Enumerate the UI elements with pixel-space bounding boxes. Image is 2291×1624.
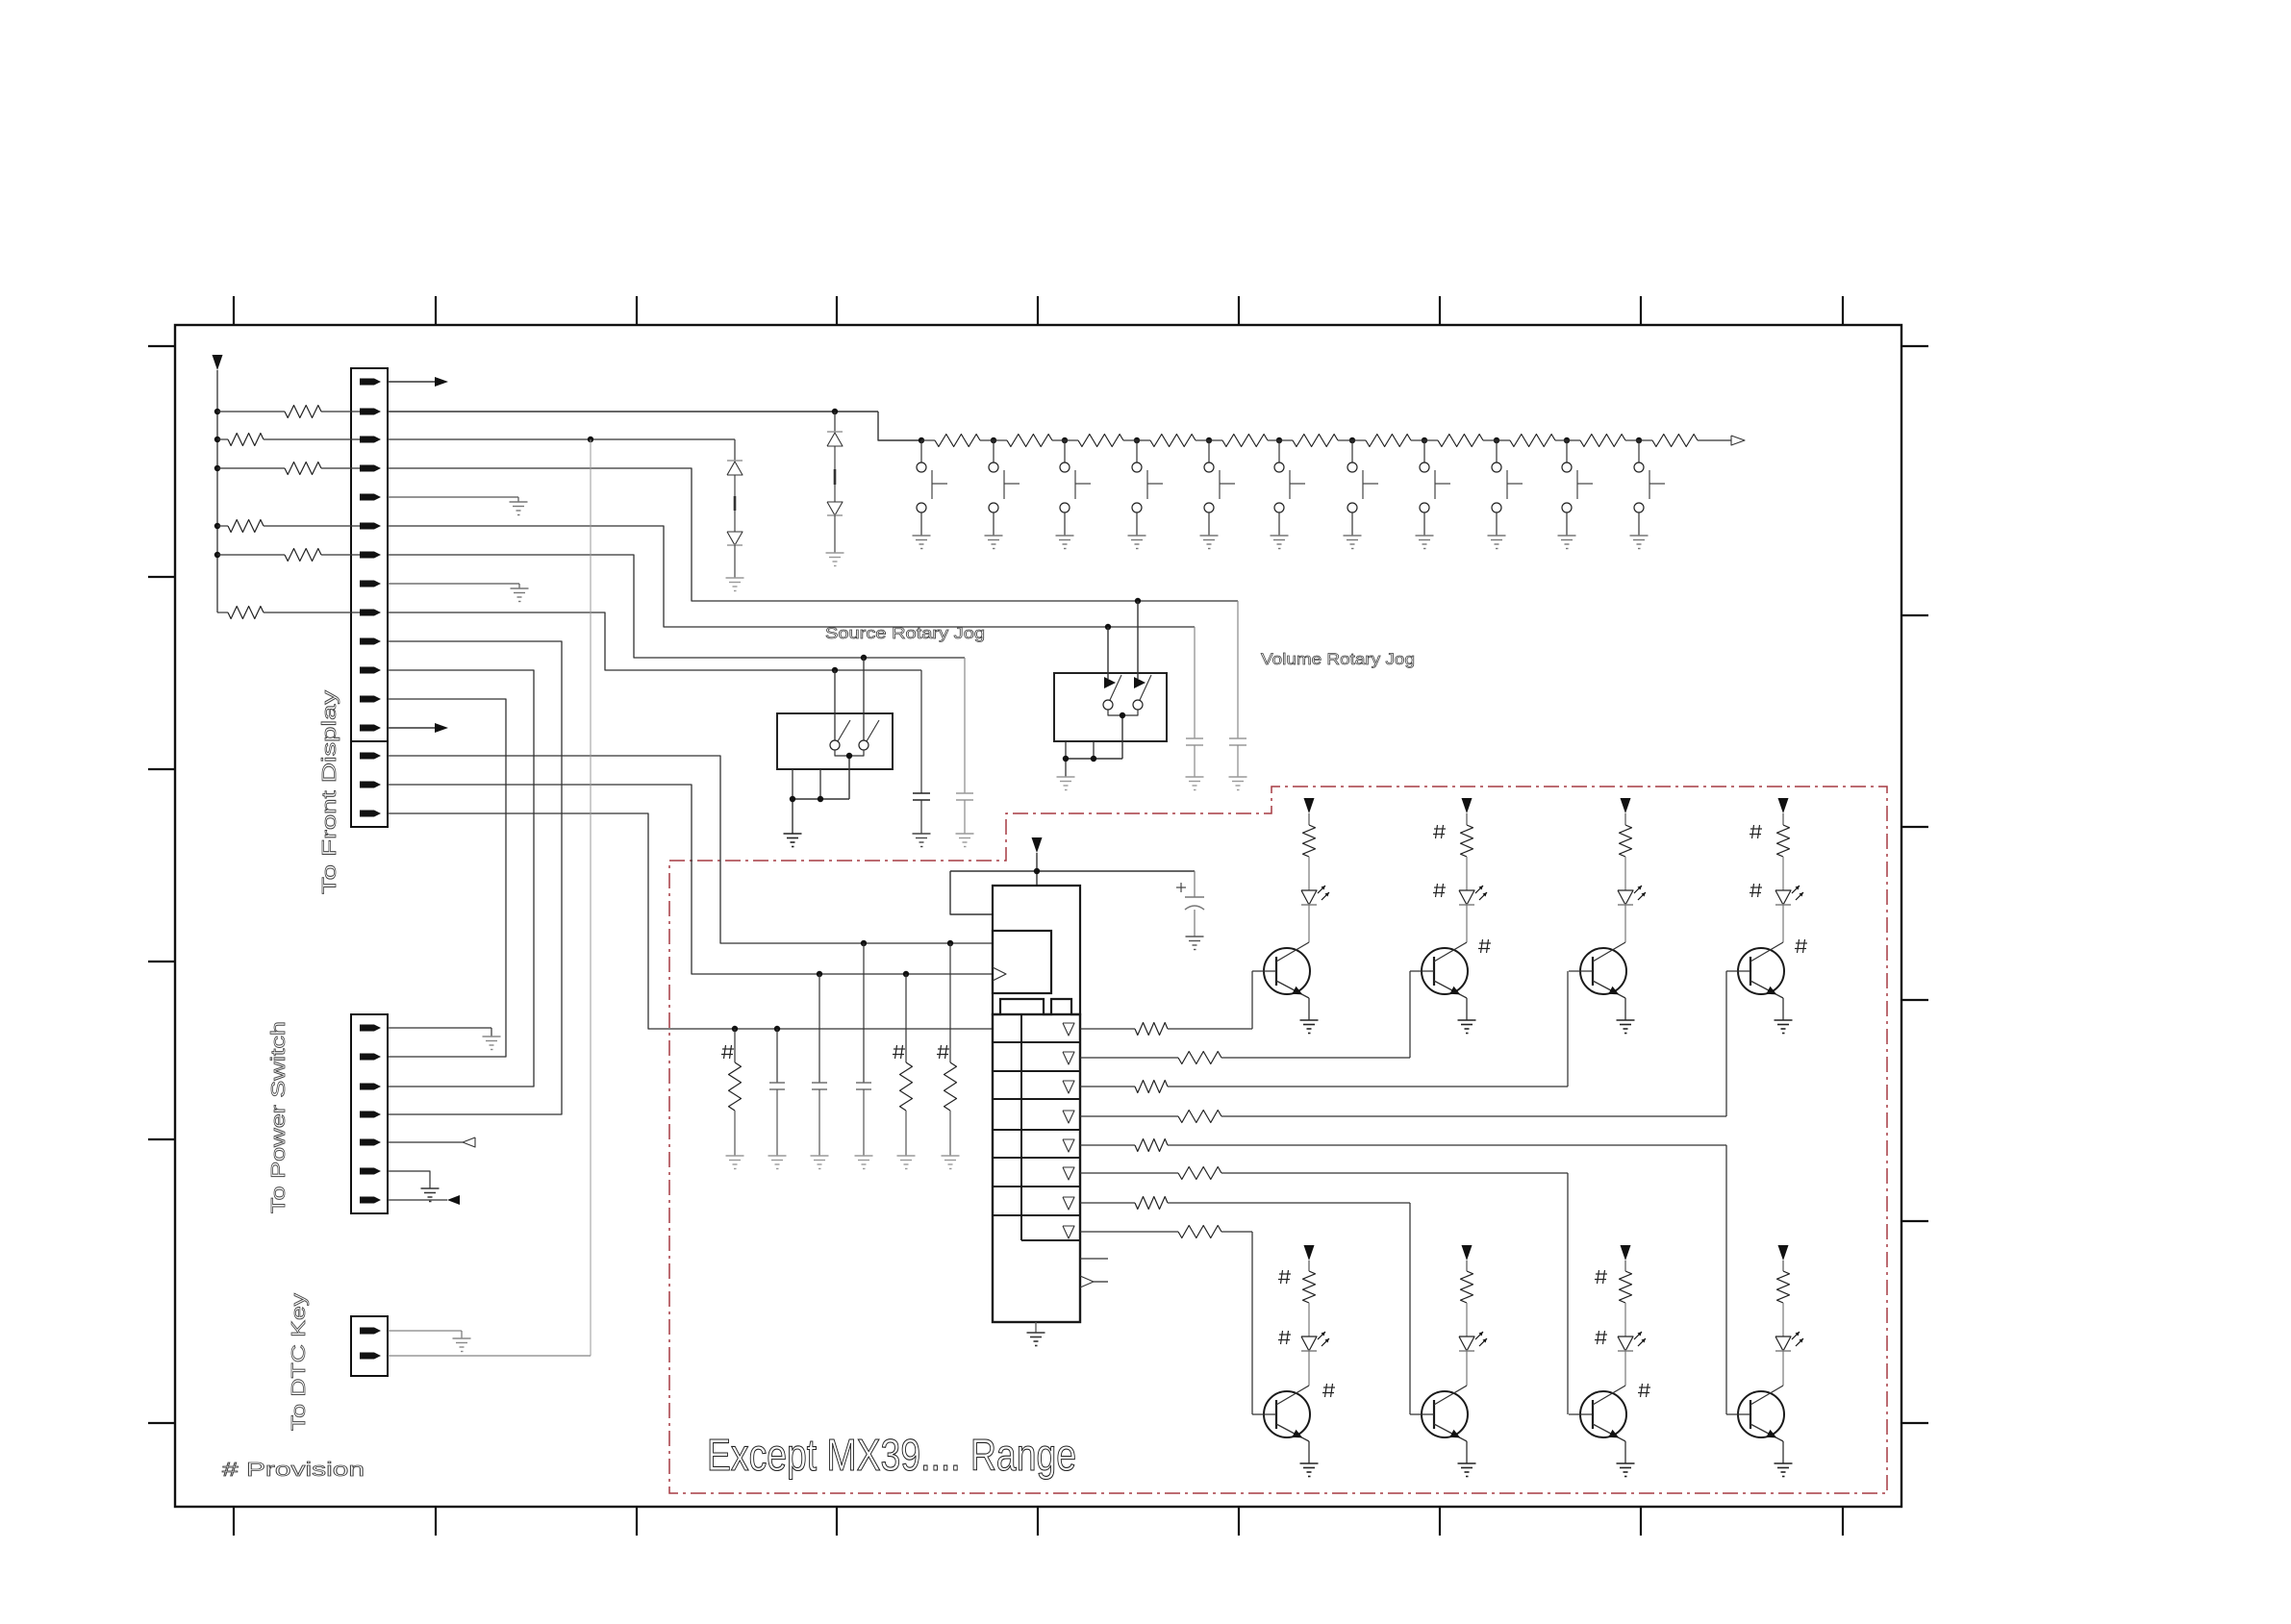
connector To DTC Key bbox=[351, 1316, 388, 1376]
provision hash mark bbox=[1638, 1384, 1650, 1397]
LED D2 bbox=[1459, 886, 1487, 942]
junction bbox=[861, 655, 867, 661]
wire into source switch 1 bbox=[834, 670, 836, 740]
wire row 1 to transistor base bbox=[1251, 971, 1253, 1029]
provision hash mark bbox=[1433, 884, 1446, 897]
connector pin bbox=[360, 465, 381, 472]
resistor bank R (provision) bbox=[729, 1029, 742, 1156]
capacitor C+ electrolytic bbox=[1176, 871, 1204, 937]
resistor LED column 2 bbox=[1461, 825, 1473, 890]
svg-text:Source Rotary Jog: Source Rotary Jog bbox=[825, 624, 985, 642]
ground bbox=[421, 1187, 440, 1189]
provision hash mark bbox=[1278, 1270, 1291, 1284]
connector pin bbox=[360, 1112, 381, 1118]
capacitor C source jog 2 bbox=[956, 658, 973, 834]
connector pin bbox=[360, 1168, 381, 1175]
connector pin bbox=[360, 811, 381, 817]
ground bbox=[1558, 535, 1576, 537]
ground bbox=[1229, 776, 1247, 778]
wire pin2 to key ladder bbox=[388, 411, 878, 412]
connector pin bbox=[360, 494, 381, 501]
svg-text:To DTC Key: To DTC Key bbox=[289, 1293, 310, 1431]
LED D4 bbox=[1775, 886, 1803, 942]
push-button key S2 bbox=[989, 440, 1020, 536]
junction bbox=[1034, 868, 1040, 874]
resistor row4 bbox=[217, 467, 285, 469]
wire pin7 to source jog bbox=[388, 555, 965, 658]
connector pin bbox=[360, 1084, 381, 1090]
IC clock input triangle bbox=[993, 967, 1006, 981]
resistor row2 bbox=[217, 411, 285, 412]
connector pin bbox=[360, 1197, 381, 1204]
transistor Q1 bbox=[1252, 942, 1319, 1034]
junction bbox=[846, 753, 852, 759]
resistor ladder R4 bbox=[1137, 439, 1150, 441]
resistor ladder R6 bbox=[1279, 439, 1293, 441]
resistor bank R2 (provision) bbox=[900, 974, 913, 1156]
provision hash mark bbox=[1433, 825, 1446, 838]
wire pin4 to volume jog bbox=[388, 468, 1238, 601]
resistor ladder R2 bbox=[994, 439, 1007, 441]
IC U1 LED driver output stack bbox=[993, 1014, 1080, 1322]
ground bbox=[1056, 535, 1074, 537]
connector pin bbox=[360, 782, 381, 788]
connector pin bbox=[360, 753, 381, 760]
push-button key S6 bbox=[1274, 440, 1305, 536]
junction bbox=[588, 437, 593, 442]
LED D1 bbox=[1301, 886, 1329, 942]
resistor IC output row 4 bbox=[1080, 1115, 1178, 1117]
power arrow LED column 1 bbox=[1304, 798, 1315, 825]
provision hash mark bbox=[1595, 1331, 1607, 1344]
ground bbox=[1057, 776, 1075, 778]
junction bbox=[1120, 712, 1125, 718]
junction bbox=[832, 409, 838, 414]
connector pin bbox=[360, 638, 381, 645]
connector pin bbox=[360, 1353, 381, 1360]
resistor LED column 3 bbox=[1620, 825, 1632, 890]
connector pin bbox=[360, 581, 381, 587]
resistor ladder R7 bbox=[1352, 439, 1366, 441]
junction on rail bbox=[214, 523, 220, 529]
connector pin bbox=[360, 1054, 381, 1061]
wire power pin6 to ground bbox=[388, 1171, 430, 1188]
junction key ladder tap 3 bbox=[1062, 437, 1068, 443]
push-button key S1 bbox=[917, 440, 947, 536]
provision hash mark bbox=[1322, 1384, 1335, 1397]
drawing frame border with ruler ticks bbox=[148, 296, 1928, 1536]
connector pin bbox=[360, 409, 381, 415]
junction bbox=[832, 667, 838, 673]
wire pin12 to power switch pin2 bbox=[388, 699, 506, 1057]
wire power pin5 open arrow bbox=[388, 1141, 463, 1143]
resistor row3 bbox=[217, 438, 228, 440]
capacitor C volume jog 1 bbox=[1186, 627, 1203, 777]
resistor ladder R5 bbox=[1209, 439, 1222, 441]
wire into volume switch 2 bbox=[1137, 601, 1139, 679]
wire pin5 to ground bbox=[388, 496, 518, 498]
resistor IC output row 8 bbox=[1080, 1231, 1178, 1233]
junction key ladder tap 4 bbox=[1134, 437, 1140, 443]
ground bbox=[510, 501, 528, 503]
ground bbox=[913, 833, 931, 835]
push-button key S7 bbox=[1347, 440, 1378, 536]
svg-text:To Power Switch: To Power Switch bbox=[268, 1021, 290, 1213]
capacitor bank C2 bbox=[812, 974, 827, 1156]
connector pin bbox=[360, 667, 381, 674]
wire pin16 to RC bank bbox=[388, 813, 993, 1029]
provision hash mark bbox=[1795, 939, 1807, 953]
resistor ladder R10 bbox=[1567, 439, 1580, 441]
junction on rail bbox=[214, 409, 220, 414]
svg-text:Volume Rotary Jog: Volume Rotary Jog bbox=[1261, 650, 1415, 668]
ground bbox=[1128, 535, 1146, 537]
connector pin bbox=[360, 725, 381, 732]
ground bbox=[726, 577, 744, 579]
diode pair D2 (to ground) bbox=[827, 412, 843, 553]
IC U1 inner block bbox=[993, 931, 1051, 993]
ground bbox=[726, 1155, 744, 1157]
wire supply elbow to IC bbox=[950, 871, 993, 914]
wire pin6 to volume jog bbox=[388, 526, 1195, 627]
wire row 4 to transistor base bbox=[1725, 971, 1727, 1116]
ground bbox=[1186, 776, 1204, 778]
wire power pin1 to ground bbox=[388, 1027, 491, 1029]
resistor IC output row 3 bbox=[1080, 1086, 1135, 1087]
wire pin11 to power switch pin3 bbox=[388, 670, 534, 1087]
connector pin bbox=[360, 552, 381, 559]
driver output triangle bbox=[1063, 1226, 1074, 1238]
wire into source switch 2 bbox=[863, 658, 865, 740]
IC U1 driver top block bbox=[993, 886, 1080, 1014]
switch contacts source jog bbox=[830, 720, 879, 799]
ground bbox=[985, 535, 1003, 537]
LED D7 bbox=[1618, 1332, 1646, 1386]
wire pin13 output arrow bbox=[388, 727, 435, 729]
junction bbox=[818, 796, 823, 802]
ground bbox=[1027, 1332, 1045, 1334]
provision hash mark bbox=[1750, 825, 1762, 838]
provision hash mark bbox=[1278, 1331, 1291, 1344]
resistor row7 bbox=[217, 554, 285, 556]
connector To Front Display lower section bbox=[351, 741, 388, 827]
driver output triangle bbox=[1063, 1111, 1074, 1123]
junction on rail bbox=[214, 465, 220, 471]
ground bbox=[1271, 535, 1289, 537]
resistor LED column 5 bbox=[1303, 1271, 1316, 1337]
provision hash mark bbox=[1595, 1270, 1607, 1284]
capacitor bank C1 bbox=[769, 1029, 785, 1156]
diode pair D1 (to ground) bbox=[727, 439, 743, 578]
IC stub output bbox=[1080, 1258, 1108, 1260]
wire pin15 to IC clock input bbox=[388, 785, 993, 974]
ground bbox=[942, 1155, 960, 1157]
wire power pin7 arrow bbox=[388, 1199, 447, 1201]
connector pin bbox=[360, 610, 381, 616]
power arrow LED column 5 bbox=[1304, 1245, 1315, 1271]
transistor Q2 bbox=[1410, 942, 1476, 1034]
resistor IC output row 6 bbox=[1080, 1172, 1178, 1174]
ground bbox=[826, 552, 844, 554]
junction key ladder tap 1 bbox=[919, 437, 924, 443]
push-button key S3 bbox=[1060, 440, 1091, 536]
svg-text:# Provision: # Provision bbox=[222, 1460, 365, 1481]
switch box Source Rotary Jog bbox=[777, 713, 893, 769]
ground bbox=[483, 1036, 501, 1037]
wire IC supply rail bbox=[950, 870, 1195, 872]
driver output triangle bbox=[1063, 1139, 1074, 1152]
junction key ladder tap 6 bbox=[1276, 437, 1282, 443]
resistor LED column 1 bbox=[1303, 825, 1316, 890]
transistor Q5 bbox=[1252, 1386, 1319, 1477]
resistor IC output row 2 bbox=[1080, 1057, 1178, 1059]
LED D5 bbox=[1301, 1332, 1329, 1386]
power arrow IC supply bbox=[1032, 837, 1043, 886]
resistor LED column 8 bbox=[1777, 1271, 1790, 1337]
wire DTC pin1 to ground bbox=[388, 1330, 462, 1332]
ground bbox=[1488, 535, 1506, 537]
connector pin bbox=[360, 437, 381, 443]
ground bbox=[511, 587, 529, 589]
junction bbox=[1105, 624, 1111, 630]
LED D8 bbox=[1775, 1332, 1803, 1386]
junction key ladder tap 9 bbox=[1494, 437, 1499, 443]
junction key ladder tap 8 bbox=[1422, 437, 1427, 443]
resistor row9 bbox=[217, 612, 228, 613]
driver output triangle bbox=[1063, 1081, 1074, 1093]
red dash-dot provision boundary box bbox=[669, 787, 1887, 1493]
svg-text:To Front Display: To Front Display bbox=[319, 690, 340, 894]
push-button key S11 bbox=[1634, 440, 1665, 536]
ground bbox=[913, 535, 931, 537]
capacitor bank C3 bbox=[856, 943, 871, 1156]
junction on rail bbox=[214, 552, 220, 558]
ground bbox=[811, 1155, 829, 1157]
power arrow on key-matrix supply rail bbox=[213, 355, 223, 612]
switch contacts volume jog bbox=[1103, 675, 1151, 759]
capacitor C source jog 1 bbox=[913, 670, 930, 834]
push-button key S8 bbox=[1420, 440, 1450, 536]
junction key ladder tap 11 bbox=[1636, 437, 1642, 443]
push-button key S9 bbox=[1492, 440, 1523, 536]
resistor LED column 7 bbox=[1620, 1271, 1632, 1337]
connector pin bbox=[360, 696, 381, 703]
junction key ladder tap 2 bbox=[991, 437, 996, 443]
capacitor C volume jog 2 bbox=[1229, 601, 1246, 777]
ground bbox=[1344, 535, 1362, 537]
junction bbox=[1091, 756, 1096, 762]
wire row 5 to transistor base bbox=[1725, 1145, 1727, 1414]
junction key ladder tap 7 bbox=[1349, 437, 1355, 443]
wire row 3 to transistor base bbox=[1567, 971, 1569, 1087]
ground bbox=[1200, 535, 1219, 537]
wire row 8 to transistor base bbox=[1251, 1232, 1253, 1414]
wire IC ground bbox=[1035, 1322, 1037, 1333]
resistor LED column 4 bbox=[1777, 825, 1790, 890]
junction key ladder tap 10 bbox=[1564, 437, 1570, 443]
resistor row6 bbox=[217, 525, 228, 527]
push-button key S10 bbox=[1562, 440, 1593, 536]
wire pin9 to source jog bbox=[388, 612, 921, 670]
wire pin14 to IC data input bbox=[388, 756, 993, 943]
wire pin8 to ground bbox=[388, 583, 519, 585]
connector To Front Display upper section bbox=[351, 368, 388, 741]
transistor Q4 bbox=[1726, 942, 1793, 1034]
svg-text:Except MX39.... Range: Except MX39.... Range bbox=[707, 1430, 1076, 1480]
power arrow LED column 6 bbox=[1462, 1245, 1473, 1271]
connector pin bbox=[360, 1139, 381, 1146]
junction bbox=[1063, 756, 1069, 762]
wire pin10 to power switch pin4 bbox=[388, 641, 562, 1114]
resistor IC output row 5 bbox=[1080, 1144, 1135, 1146]
driver output triangle bbox=[1063, 1197, 1074, 1210]
resistor ladder R1 bbox=[921, 439, 935, 441]
connector To Power Switch bbox=[351, 1014, 388, 1213]
resistor ladder R9 bbox=[1497, 439, 1510, 441]
resistor LED column 6 bbox=[1461, 1271, 1473, 1337]
junction bbox=[1135, 598, 1141, 604]
power arrow LED column 4 bbox=[1778, 798, 1789, 825]
power arrow LED column 3 bbox=[1621, 798, 1631, 825]
connector pin bbox=[360, 523, 381, 530]
provision hash mark bbox=[1478, 939, 1491, 953]
ground bbox=[1416, 535, 1434, 537]
ground bbox=[897, 1155, 916, 1157]
push-button key S5 bbox=[1204, 440, 1235, 536]
power arrow LED column 8 bbox=[1778, 1245, 1789, 1271]
resistor ladder R3 bbox=[1065, 439, 1078, 441]
ground bbox=[784, 833, 802, 835]
connector pin bbox=[360, 1328, 381, 1335]
junction key ladder tap 5 bbox=[1206, 437, 1212, 443]
connector pin bbox=[360, 379, 381, 386]
ground bbox=[1630, 535, 1649, 537]
resistor IC output row 7 bbox=[1080, 1202, 1135, 1204]
source jog common stubs bbox=[793, 769, 849, 834]
resistor IC output row 1 bbox=[1080, 1028, 1135, 1030]
LED D3 bbox=[1618, 886, 1646, 942]
resistor ladder R8 bbox=[1424, 439, 1438, 441]
driver output triangle bbox=[1063, 1052, 1074, 1064]
ground bbox=[1186, 936, 1204, 937]
volume jog common stubs bbox=[1066, 741, 1122, 777]
resistor ladder R11 bbox=[1639, 439, 1652, 441]
power arrow LED column 2 bbox=[1462, 798, 1473, 825]
wire into volume switch 1 bbox=[1107, 627, 1109, 679]
wire row 6 to transistor base bbox=[1567, 1173, 1569, 1414]
driver output triangle bbox=[1063, 1023, 1074, 1036]
junction on rail bbox=[214, 437, 220, 442]
junction bbox=[790, 796, 795, 802]
wire pin3 to diode stack bbox=[388, 438, 735, 440]
transistor Q8 bbox=[1726, 1386, 1793, 1477]
driver output triangle bbox=[1063, 1167, 1074, 1180]
provision hash mark bbox=[1750, 884, 1762, 897]
switch box Volume Rotary Jog bbox=[1054, 673, 1167, 741]
power arrow LED column 7 bbox=[1621, 1245, 1631, 1271]
connector pin bbox=[360, 1025, 381, 1032]
ground bbox=[855, 1155, 873, 1157]
wire row 7 to transistor base bbox=[1409, 1203, 1411, 1414]
transistor Q7 bbox=[1569, 1386, 1635, 1477]
ground bbox=[768, 1155, 787, 1157]
wire DTC pin2 to display pin3 bbox=[388, 1355, 591, 1357]
resistor bank R3 (provision) bbox=[944, 943, 957, 1156]
LED D6 bbox=[1459, 1332, 1487, 1386]
wire pin1 output arrow bbox=[388, 381, 435, 383]
ground bbox=[956, 833, 974, 835]
push-button key S4 bbox=[1132, 440, 1163, 536]
open arrow ladder output bbox=[1731, 436, 1745, 445]
transistor Q6 bbox=[1410, 1386, 1476, 1477]
transistor Q3 bbox=[1569, 942, 1635, 1034]
ground bbox=[453, 1337, 471, 1339]
IC clock-out triangle bbox=[1080, 1276, 1094, 1287]
wire row 2 to transistor base bbox=[1409, 971, 1411, 1058]
